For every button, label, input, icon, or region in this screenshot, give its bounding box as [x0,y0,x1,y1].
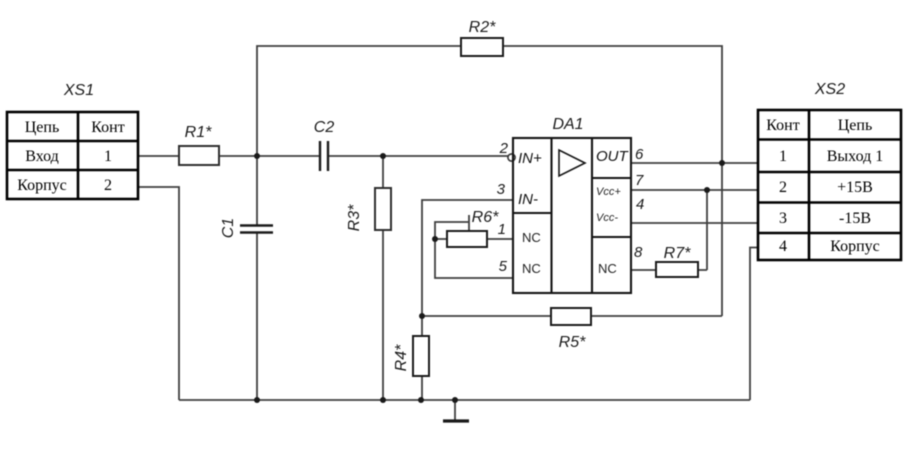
svg-text:8: 8 [634,244,643,261]
svg-text:1: 1 [779,148,787,165]
svg-text:6: 6 [635,146,644,163]
svg-text:2: 2 [779,179,787,196]
svg-text:C1: C1 [220,218,237,238]
svg-text:NC: NC [522,261,541,276]
svg-text:NC: NC [522,230,541,245]
svg-text:2: 2 [104,177,112,194]
svg-text:Vcc+: Vcc+ [596,186,621,198]
svg-text:Выход 1: Выход 1 [827,148,884,165]
svg-text:5: 5 [499,258,508,275]
svg-text:4: 4 [779,238,787,255]
svg-text:-15В: -15В [839,210,871,227]
svg-text:XS1: XS1 [63,82,94,99]
svg-text:Вход: Вход [25,148,59,165]
svg-text:Конт: Конт [766,117,799,134]
svg-text:C2: C2 [314,119,335,136]
svg-text:Конт: Конт [91,119,124,136]
svg-text:Корпус: Корпус [830,238,880,255]
svg-text:R6*: R6* [472,209,499,226]
svg-text:Цепь: Цепь [25,119,60,136]
svg-text:3: 3 [497,181,506,198]
svg-text:R1*: R1* [185,124,212,141]
svg-text:2: 2 [499,140,509,157]
svg-text:IN+: IN+ [518,150,542,167]
svg-text:R3*: R3* [346,204,363,231]
svg-text:R2*: R2* [469,19,496,36]
svg-text:4: 4 [636,196,644,213]
svg-text:R4*: R4* [393,344,410,371]
svg-text:R5*: R5* [559,334,586,351]
svg-text:DA1: DA1 [552,116,583,133]
svg-text:Цепь: Цепь [838,117,873,134]
svg-text:1: 1 [498,221,506,238]
svg-text:7: 7 [635,172,644,189]
svg-text:1: 1 [104,148,112,165]
svg-text:XS2: XS2 [814,81,845,98]
svg-text:Vcc-: Vcc- [596,212,618,224]
svg-text:NC: NC [598,261,617,276]
svg-text:+15В: +15В [837,179,873,196]
svg-text:3: 3 [779,210,787,227]
svg-text:OUT: OUT [596,148,630,165]
svg-text:IN-: IN- [518,191,538,208]
svg-text:Корпус: Корпус [17,177,67,194]
svg-text:R7*: R7* [664,245,691,262]
